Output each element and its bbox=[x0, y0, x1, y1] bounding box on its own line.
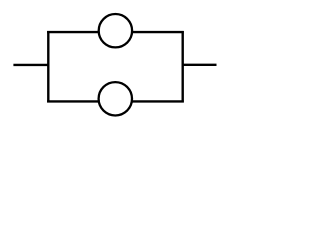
wire: left vertical branch connector bbox=[47, 31, 49, 103]
wire: left lead bbox=[13, 64, 48, 66]
wire: top branch bbox=[47, 31, 184, 33]
wire: bottom branch bbox=[47, 100, 184, 102]
lamp/meter circle component (top branch) bbox=[99, 14, 132, 47]
wire: right lead bbox=[183, 64, 217, 66]
wire: right vertical branch connector bbox=[181, 31, 183, 103]
lamp/meter circle component (bottom branch) bbox=[99, 82, 132, 115]
